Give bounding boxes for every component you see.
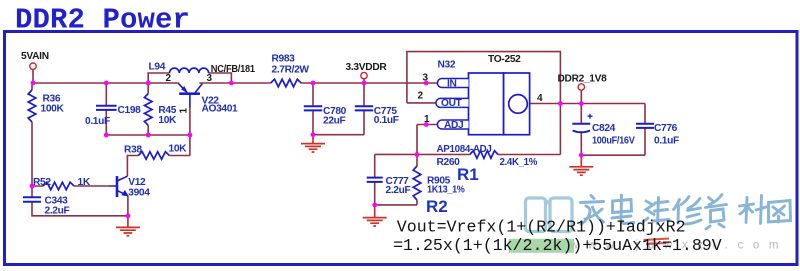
svg-text:R38: R38 — [124, 144, 142, 155]
wire V12 emitter to ground bus — [127, 196, 129, 216]
ground below C777 — [363, 205, 387, 226]
pin ADJ — [437, 120, 468, 129]
watermark hanzi strokes — [581, 195, 791, 230]
node ADJ/R260 — [415, 152, 420, 157]
svg-text:2.4K_1%: 2.4K_1% — [500, 157, 538, 168]
svg-text:0.1uF: 0.1uF — [374, 115, 399, 126]
svg-text:N32: N32 — [438, 59, 456, 70]
svg-text:DDR2_1V8: DDR2_1V8 — [558, 74, 608, 85]
node R45 bottom — [146, 133, 151, 138]
svg-text:2: 2 — [166, 73, 172, 84]
svg-text:NC/FB/181: NC/FB/181 — [211, 64, 256, 75]
svg-text:1: 1 — [424, 114, 430, 125]
wire C776 branch — [644, 104, 646, 156]
capacitor C776 — [636, 123, 679, 146]
resistor R52 — [33, 177, 91, 190]
node C780 top — [311, 81, 316, 86]
svg-text:R2: R2 — [426, 197, 448, 216]
svg-text:2.2uF: 2.2uF — [45, 205, 70, 216]
wire C343 branch — [32, 186, 128, 216]
wire R36 to R52 node — [31, 83, 33, 186]
svg-text:3904: 3904 — [128, 187, 150, 198]
wire gate bus — [106, 134, 190, 136]
svg-text:TO-252: TO-252 — [488, 54, 521, 65]
resistor R983 — [271, 53, 310, 87]
wire C198 branch — [105, 83, 107, 135]
wire caps ground bus — [313, 134, 364, 136]
svg-text:10K: 10K — [169, 143, 188, 154]
svg-text:R983: R983 — [272, 53, 296, 64]
svg-text:R1: R1 — [457, 165, 479, 184]
watermark red mark — [644, 239, 670, 245]
wire C777-R905 ground bus — [375, 204, 417, 206]
capacitor C343 — [23, 196, 69, 217]
wire rail right of V22 to IN pin — [199, 82, 437, 84]
wire R260 row — [375, 153, 561, 155]
svg-text:2.2uF: 2.2uF — [386, 185, 411, 196]
svg-text:L94: L94 — [149, 61, 166, 72]
svg-text:1K13_1%: 1K13_1% — [427, 185, 465, 196]
capacitor C777 — [367, 176, 411, 196]
svg-text:2.7R/2W: 2.7R/2W — [272, 64, 310, 75]
resistor R905 — [413, 166, 465, 200]
wire C775 branch — [363, 83, 365, 135]
wire R45 leads — [147, 83, 149, 135]
svg-text:AO3401: AO3401 — [202, 103, 239, 114]
transistor V12 3904 — [108, 176, 150, 198]
port DDR2_1V8 — [578, 84, 584, 90]
transistor V22 AO3401 — [178, 84, 238, 115]
wire R52 row — [32, 185, 108, 187]
pin OUT — [436, 98, 469, 107]
node V12 emitter gnd — [126, 213, 131, 218]
svg-text:1K: 1K — [78, 177, 91, 188]
wire C824 C776 ground bus — [581, 154, 645, 156]
svg-text:100uF/16V: 100uF/16V — [592, 135, 635, 146]
svg-text:100K: 100K — [41, 104, 65, 115]
ground below C824 — [569, 155, 593, 175]
node ADJ pin — [424, 122, 429, 127]
svg-text:C824: C824 — [592, 123, 616, 134]
watermark book icon — [526, 198, 573, 232]
svg-text:10K: 10K — [158, 115, 177, 126]
svg-text:0.1uF: 0.1uF — [654, 135, 679, 146]
node R45/L94 top — [146, 81, 151, 86]
wire OUT loop up and over — [407, 52, 561, 155]
tab hole — [509, 95, 528, 114]
node R52 left — [30, 184, 35, 189]
node IN pin — [424, 81, 429, 86]
wire 5VAIN rail left — [33, 70, 179, 84]
port 5VAIN — [30, 63, 36, 69]
wire DDR2_1V8 stub — [580, 90, 582, 103]
ground below V12 emitter — [116, 216, 140, 236]
svg-text:5VAIN: 5VAIN — [21, 51, 49, 62]
wire V22 gate down to R38 row — [189, 107, 191, 156]
svg-text:C198: C198 — [118, 105, 142, 116]
wire ADJ riser — [416, 125, 418, 167]
svg-text:C776: C776 — [654, 123, 678, 134]
wire C777 branch — [374, 154, 376, 205]
wire R905 bottom lead — [416, 200, 418, 205]
resistor R45 — [144, 94, 177, 126]
regulator N32 AP1084-ADJ TO-252 — [418, 54, 544, 135]
svg-text:2: 2 — [418, 91, 424, 102]
svg-text:3: 3 — [423, 73, 429, 84]
node C198 top — [104, 81, 109, 86]
wire pin4 DDR2_1V8 rail — [530, 103, 645, 105]
node C198 bottom — [104, 133, 109, 138]
svg-text:0.1uF: 0.1uF — [85, 116, 110, 127]
wire ADJ pin stub — [417, 124, 438, 126]
wire L94 risers and leads — [148, 73, 231, 83]
wire C824 branch — [580, 104, 582, 156]
svg-text:22uF: 22uF — [323, 116, 346, 127]
capacitor C775 — [355, 106, 399, 126]
wire 3.3VDDR stub — [363, 79, 365, 83]
port 3.3VDDR — [361, 72, 367, 78]
node C777 gnd — [372, 203, 377, 208]
svg-text:3.3VDDR: 3.3VDDR — [346, 62, 388, 73]
node 5VAIN/R36 — [31, 81, 36, 86]
svg-text:Vout=Vrefx(1+(R2/R1))+IadjxR2: Vout=Vrefx(1+(R2/R1))+IadjxR2 — [397, 218, 686, 237]
wire R38 row — [127, 156, 189, 177]
node C824 gnd — [579, 153, 584, 158]
capacitor C824 (polarized) — [572, 114, 635, 147]
capacitor C780 — [304, 106, 347, 127]
svg-text:R52: R52 — [33, 177, 51, 188]
svg-text:4: 4 — [537, 93, 543, 104]
resistor R260 — [437, 144, 538, 168]
capacitor C198 — [85, 105, 141, 127]
wire C780 branch — [312, 83, 314, 135]
wire OUT pin stub — [407, 102, 436, 104]
pin IN — [437, 79, 468, 88]
inductor L94 — [149, 61, 213, 84]
svg-text:=1.25x(1+(1k/2.2k))+55uAx1k=1.: =1.25x(1+(1k/2.2k))+55uAx1k=1.89V — [393, 236, 722, 255]
svg-text:AP1084-ADJ: AP1084-ADJ — [437, 144, 492, 155]
svg-text:1: 1 — [179, 108, 190, 114]
node pin4/feedback — [558, 101, 563, 106]
node L94 pin3 riser — [229, 81, 234, 86]
node DDR2_1V8 — [579, 101, 584, 106]
node gate bus R38 — [188, 133, 193, 138]
node C780 gnd — [311, 132, 316, 137]
ground below C780 — [301, 135, 325, 152]
resistor R36 — [28, 90, 64, 122]
package tab — [504, 73, 530, 135]
resistor R38 — [124, 143, 187, 159]
junction node dots — [30, 81, 584, 219]
green highlight — [509, 239, 574, 253]
node 3.3VDDR — [362, 81, 367, 86]
package body — [469, 73, 504, 135]
